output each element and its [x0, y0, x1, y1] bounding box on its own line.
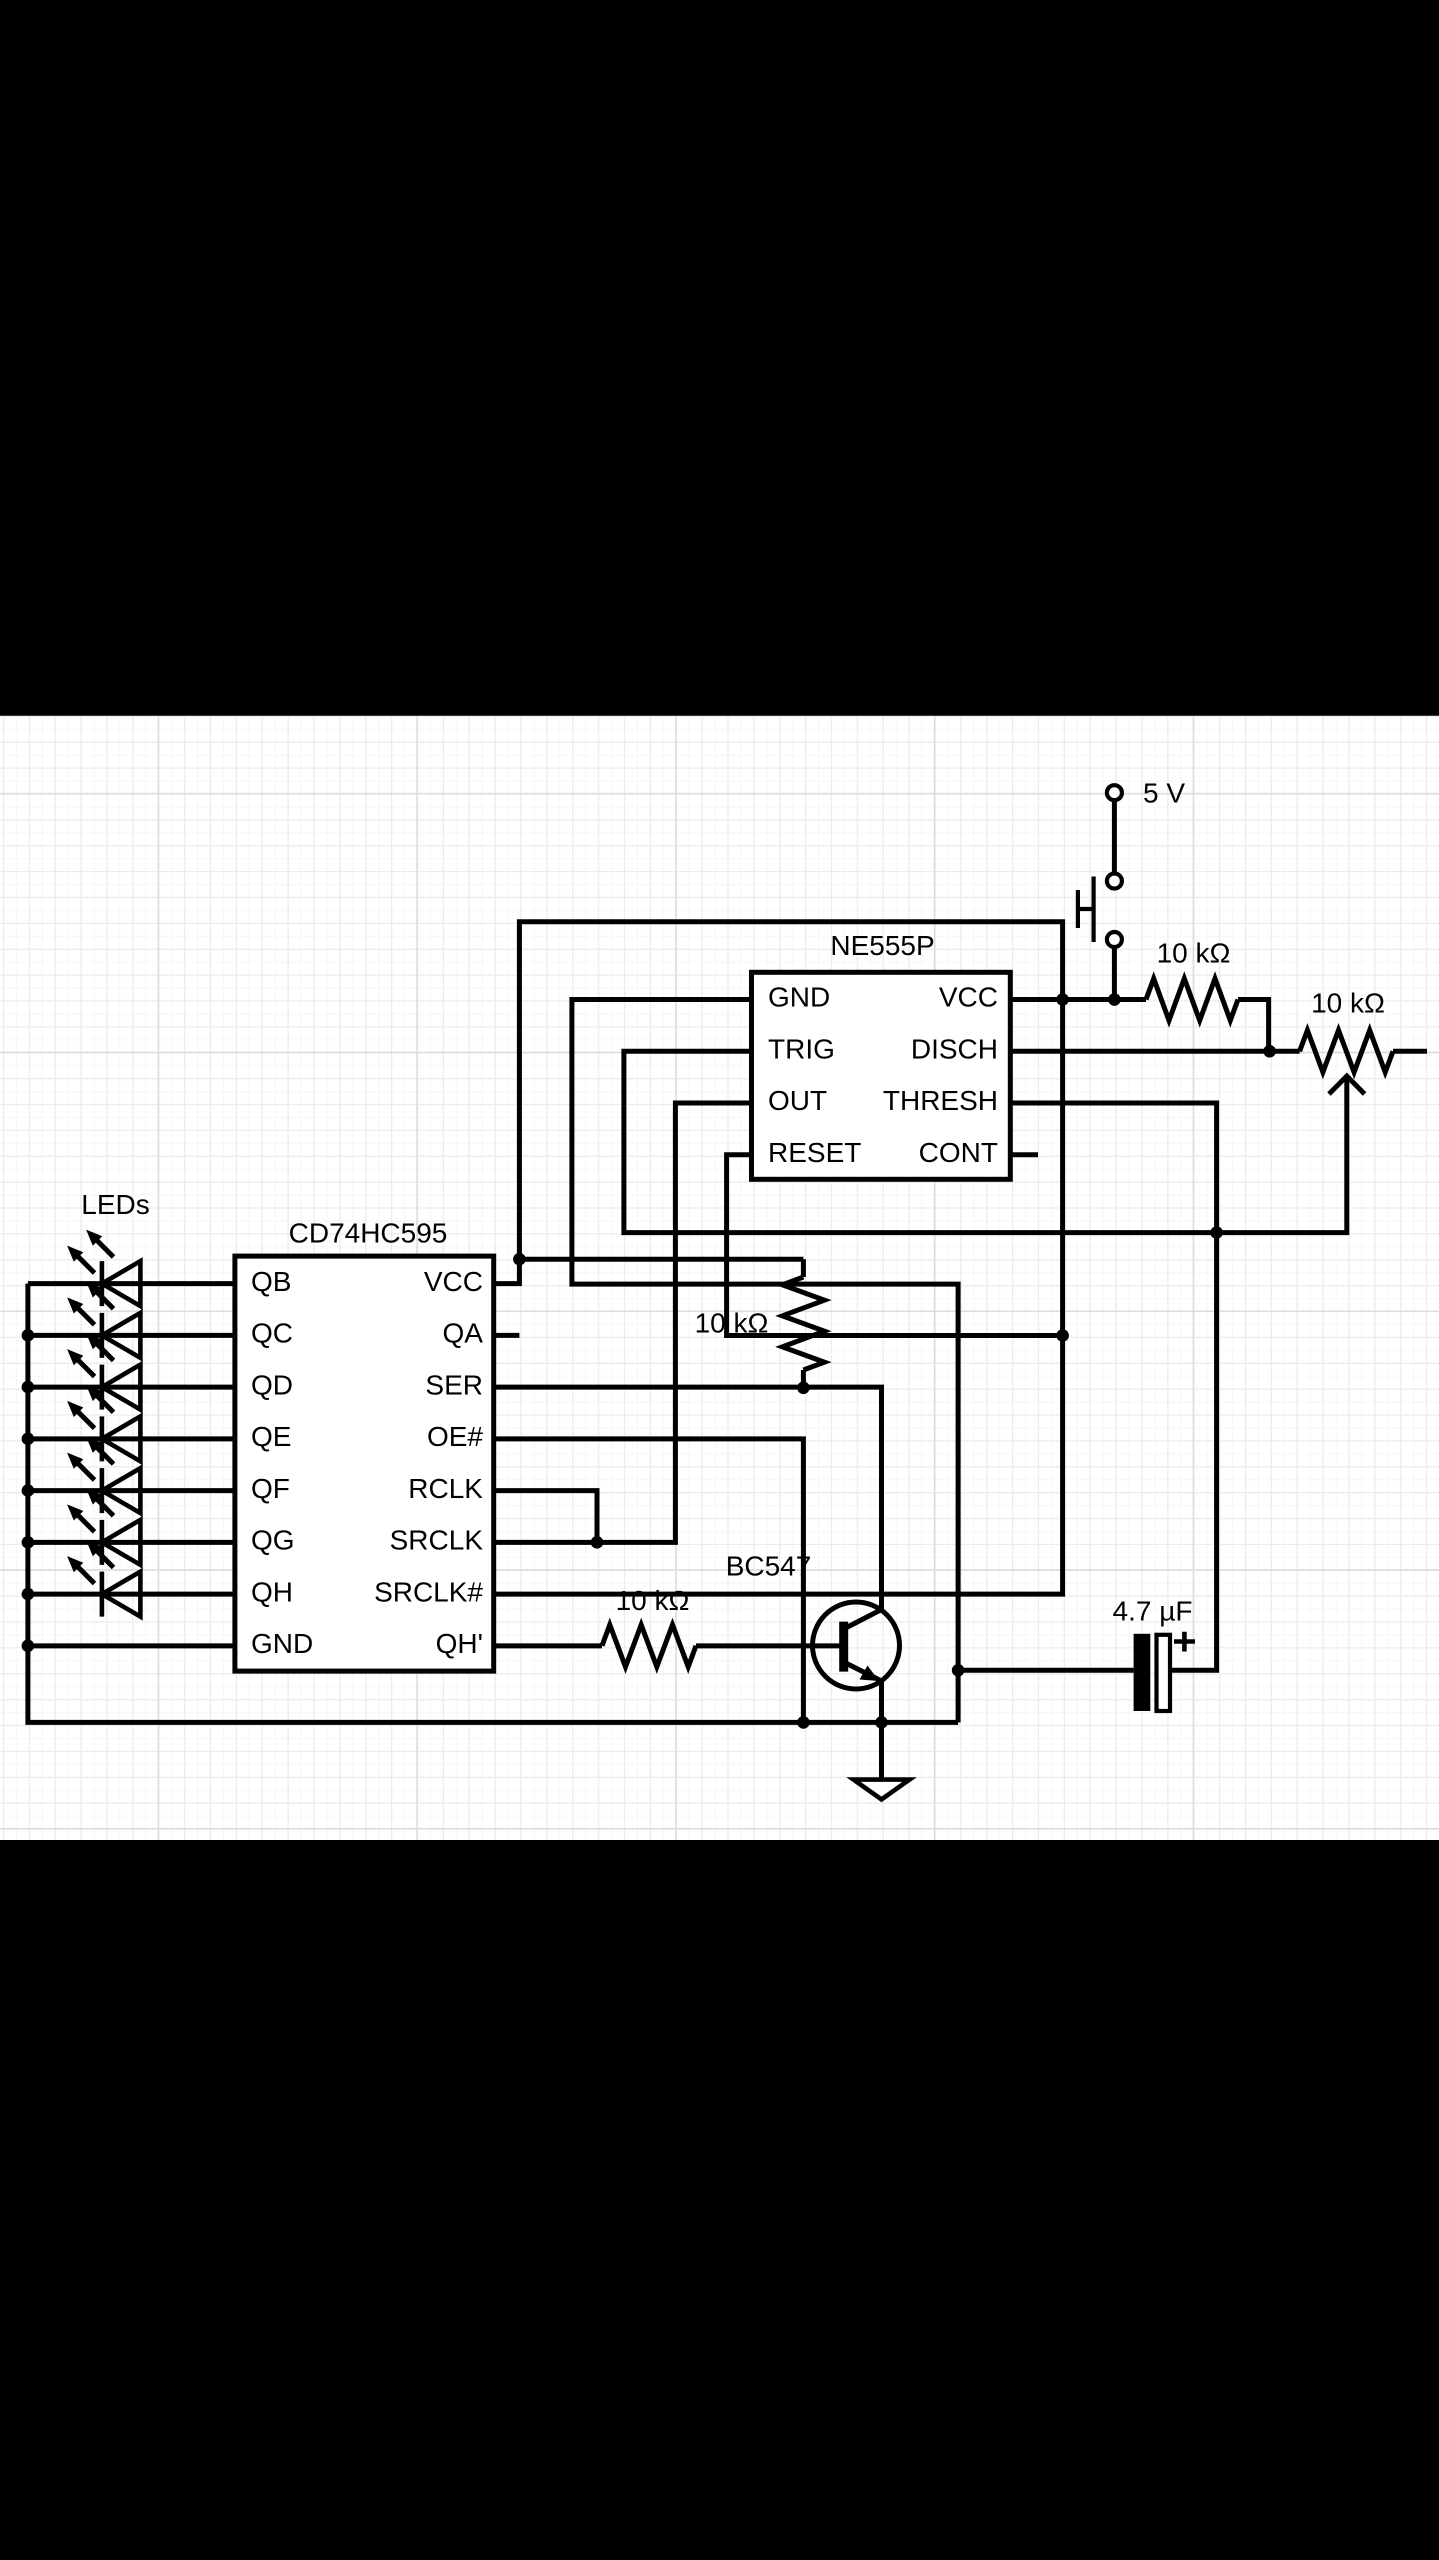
- node TRIG/THRESH timing junction: [1210, 1226, 1223, 1239]
- wire DISCH pin to potentiometer: [1010, 1049, 1269, 1054]
- value label 10 kOhm R2: [1311, 988, 1385, 1019]
- wire LED row QG from cathode bus to 595 QG pin: [28, 1540, 235, 1545]
- ground: [854, 1722, 910, 1799]
- svg-text:10 kΩ: 10 kΩ: [616, 1585, 690, 1616]
- pin label QH' U2: [436, 1628, 483, 1659]
- wire R4 to transistor base: [696, 1643, 844, 1648]
- svg-text:GND: GND: [251, 1628, 313, 1659]
- pin label QE U2: [251, 1421, 291, 1452]
- label CD74HC595: [289, 1218, 448, 1249]
- label NE555P: [830, 930, 934, 961]
- svg-text:SER: SER: [425, 1369, 483, 1400]
- svg-text:SRCLK: SRCLK: [390, 1525, 484, 1556]
- node LED bus junction row 4: [22, 1484, 35, 1497]
- pin label GND U2: [251, 1628, 313, 1659]
- label BC547: [726, 1551, 812, 1582]
- pin label THRESH U1: [883, 1085, 998, 1116]
- svg-text:RCLK: RCLK: [408, 1473, 483, 1504]
- svg-text:BC547: BC547: [726, 1551, 812, 1582]
- transistor Q1 BC547: [813, 1602, 900, 1689]
- pin label QB U2: [251, 1266, 291, 1297]
- wire 555 GND pin down and across to ground net: [572, 1000, 958, 1723]
- wire QA pin stub: [494, 1333, 520, 1338]
- pin label QC U2: [251, 1318, 293, 1349]
- svg-text:5 V: 5 V: [1143, 777, 1185, 808]
- node 5V terminal: [1107, 785, 1122, 800]
- svg-text:QE: QE: [251, 1421, 291, 1452]
- wire LED row QF from cathode bus to 595 QF pin: [28, 1488, 235, 1493]
- pin label RESET U1: [768, 1137, 861, 1168]
- node RCLK/SRCLK junction: [591, 1536, 604, 1549]
- capacitor C1 4.7uF: [1134, 1632, 1195, 1711]
- svg-text:QD: QD: [251, 1369, 293, 1400]
- svg-text:CONT: CONT: [919, 1137, 998, 1168]
- node emitter ground junction: [875, 1716, 888, 1729]
- wire 595 VCC pin hook: [494, 1259, 520, 1283]
- wire LED row GND from cathode bus to 595 GND pin: [28, 1643, 235, 1648]
- pin label OUT U1: [768, 1085, 827, 1116]
- node R1 DISCH junction: [1263, 1045, 1276, 1058]
- label LEDs: [81, 1189, 149, 1220]
- node RESET VCC junction: [1056, 1329, 1069, 1342]
- svg-text:NE555P: NE555P: [830, 930, 934, 961]
- node capacitor ground junction: [952, 1664, 965, 1677]
- svg-text:QH: QH: [251, 1576, 293, 1607]
- value label 10 kOhm R4: [616, 1585, 690, 1616]
- wire LED row QH from cathode bus to 595 QH pin: [28, 1592, 235, 1597]
- wire TRIG pin loop to timing node: [624, 1051, 1217, 1232]
- wire 555 VCC pin to resistor R1: [1010, 997, 1146, 1002]
- wire OE# pin down to ground bus: [494, 1439, 804, 1723]
- node LED bus junction row 3: [22, 1433, 35, 1446]
- wire VCC junction to pull-up resistor R3 top: [519, 1257, 803, 1262]
- pin label QF U2: [251, 1473, 290, 1504]
- wire 5V terminal to push button: [1112, 800, 1117, 873]
- label 5 V: [1143, 777, 1185, 808]
- LED D6: [67, 1488, 140, 1565]
- node SER pull-up junction: [797, 1382, 810, 1395]
- node LED bus junction row 1: [22, 1329, 35, 1342]
- svg-text:VCC: VCC: [424, 1266, 483, 1297]
- wire ground bus along bottom and LED cathode bus up left side: [28, 1284, 958, 1723]
- svg-text:QA: QA: [443, 1318, 484, 1349]
- wire R1 right lead down to DISCH net: [1238, 1000, 1269, 1052]
- resistor R1 10k (VCC to DISCH): [1146, 979, 1238, 1021]
- LED D7: [67, 1540, 140, 1617]
- svg-text:TRIG: TRIG: [768, 1033, 835, 1064]
- svg-text:QG: QG: [251, 1525, 295, 1556]
- pin label QH U2: [251, 1576, 293, 1607]
- wire push button to VCC rail: [1112, 947, 1117, 1000]
- node VCC junction at 595 VCC hook: [513, 1253, 526, 1266]
- svg-text:OUT: OUT: [768, 1085, 827, 1116]
- svg-text:QB: QB: [251, 1266, 291, 1297]
- svg-text:QC: QC: [251, 1318, 293, 1349]
- pin label OE# U2: [427, 1421, 483, 1452]
- wire LED row QD from cathode bus to 595 QD pin: [28, 1385, 235, 1390]
- LED D3: [67, 1333, 140, 1410]
- svg-text:VCC: VCC: [939, 982, 998, 1013]
- pin label VCC U1: [939, 982, 998, 1013]
- potentiometer R2 10k: [1270, 1030, 1427, 1094]
- svg-text:10 kΩ: 10 kΩ: [1157, 938, 1231, 969]
- LED D2: [67, 1281, 140, 1358]
- node LED bus junction row 6: [22, 1588, 35, 1601]
- wire ground vertical to capacitor minus: [958, 1668, 1134, 1673]
- wire VCC loop over NE555 (595 VCC junction up and across to 555 VCC): [519, 922, 1062, 1259]
- push button S1: [1078, 874, 1122, 948]
- pin label CONT U1: [919, 1137, 998, 1168]
- value label 4.7 uF C1: [1113, 1596, 1193, 1627]
- wire SER pin to transistor collector: [494, 1387, 882, 1609]
- IC U1 NE555P body: [752, 972, 1011, 1179]
- pin label SER U2: [425, 1369, 483, 1400]
- node LED bus junction row 5: [22, 1536, 35, 1549]
- LED D1: [67, 1230, 140, 1307]
- wire transistor emitter to ground bus: [879, 1681, 884, 1722]
- node button VCC junction: [1108, 993, 1121, 1006]
- svg-text:SRCLK#: SRCLK#: [374, 1576, 483, 1607]
- svg-text:10 kΩ: 10 kΩ: [1311, 988, 1385, 1019]
- wire OUT pin loop down to SRCLK pin: [494, 1103, 752, 1542]
- pin label QD U2: [251, 1369, 293, 1400]
- wire LED row QB from cathode bus to 595 QB pin: [28, 1281, 235, 1286]
- wire RCLK pin hook to SRCLK net: [494, 1491, 597, 1543]
- node LED bus junction row 7: [22, 1640, 35, 1653]
- wire QH' pin to resistor R4: [494, 1643, 602, 1648]
- pin label SRCLK# U2: [374, 1576, 483, 1607]
- svg-text:DISCH: DISCH: [911, 1033, 998, 1064]
- svg-text:10 kΩ: 10 kΩ: [695, 1308, 769, 1339]
- LED D4: [67, 1385, 140, 1462]
- svg-text:QH': QH': [436, 1628, 483, 1659]
- pin label GND U1: [768, 982, 830, 1013]
- wire LED row QC from cathode bus to 595 QC pin: [28, 1333, 235, 1338]
- node LED bus junction row 2: [22, 1381, 35, 1394]
- node OE# ground junction: [797, 1716, 810, 1729]
- wire RESET pin loop to VCC rail: [727, 1155, 1063, 1336]
- svg-text:CD74HC595: CD74HC595: [289, 1218, 448, 1249]
- pin label DISCH U1: [911, 1033, 998, 1064]
- pin label QG U2: [251, 1525, 295, 1556]
- value label 10 kOhm R3: [695, 1308, 769, 1339]
- svg-text:OE#: OE#: [427, 1421, 483, 1452]
- pin label QA U2: [443, 1318, 484, 1349]
- wire THRESH pin down to capacitor plus: [1010, 1103, 1216, 1670]
- svg-text:4.7 µF: 4.7 µF: [1113, 1596, 1193, 1627]
- svg-text:GND: GND: [768, 982, 830, 1013]
- IC U2 CD74HC595 body: [235, 1256, 494, 1671]
- wire CONT pin stub: [1010, 1152, 1038, 1157]
- svg-text:RESET: RESET: [768, 1137, 861, 1168]
- wire potentiometer wiper to timing node: [1217, 1076, 1347, 1233]
- value label 10 kOhm R1: [1157, 938, 1231, 969]
- svg-text:QF: QF: [251, 1473, 290, 1504]
- node 555 VCC junction: [1056, 993, 1069, 1006]
- pin label VCC U2: [424, 1266, 483, 1297]
- pin label SRCLK U2: [390, 1525, 484, 1556]
- resistor R4 10k (QH' to base): [602, 1625, 696, 1667]
- resistor R3 10k pull-up (vertical): [782, 1259, 824, 1388]
- svg-text:LEDs: LEDs: [81, 1189, 149, 1220]
- wire VCC vertical rail down to SRCLK# pin: [494, 1000, 1063, 1595]
- pin label RCLK U2: [408, 1473, 483, 1504]
- pin label TRIG U1: [768, 1033, 835, 1064]
- wire LED row QE from cathode bus to 595 QE pin: [28, 1436, 235, 1441]
- svg-text:THRESH: THRESH: [883, 1085, 998, 1116]
- LED D5: [67, 1437, 140, 1514]
